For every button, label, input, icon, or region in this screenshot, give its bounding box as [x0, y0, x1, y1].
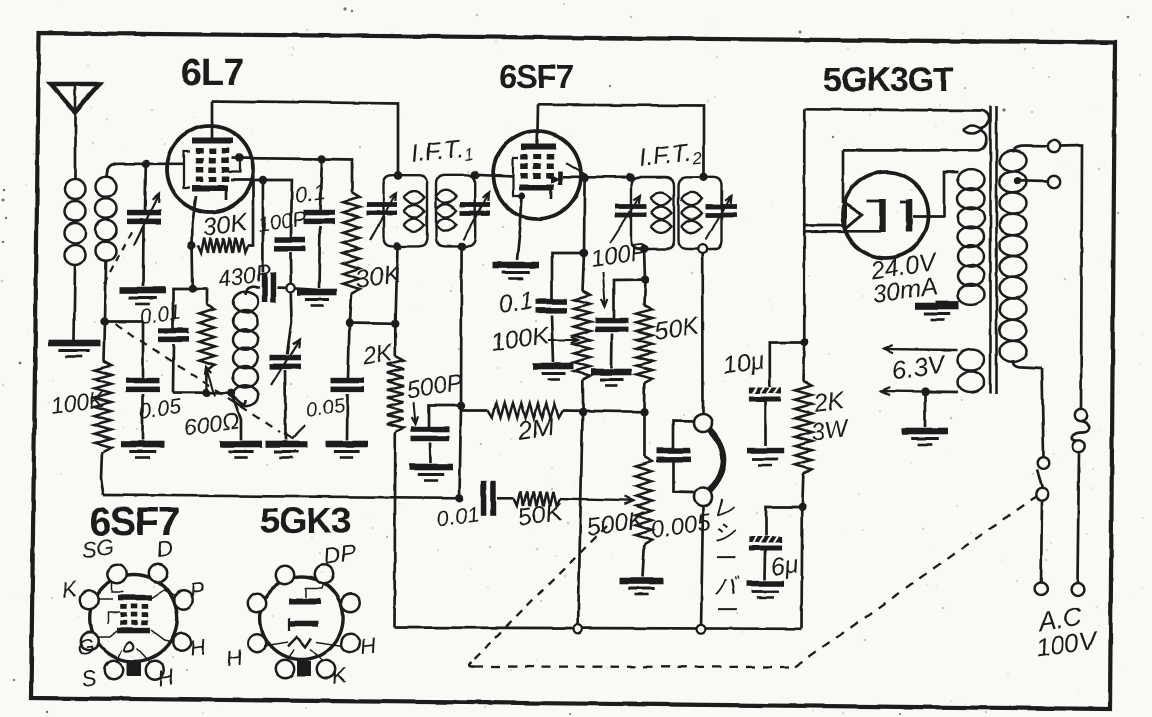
- wire primary bottom to switch: [1013, 360, 1042, 369]
- resistor 100K (diode load): [583, 253, 585, 291]
- svg-text:S: S: [80, 665, 98, 692]
- arrow osc varcap: [271, 339, 300, 385]
- wire 6L7 grid3 out: [232, 158, 322, 159]
- 6L7 grids: [196, 148, 204, 154]
- wire phones bottom down: [701, 506, 703, 629]
- svg-text:0.05: 0.05: [137, 393, 184, 424]
- IFT1 secondary coil: [436, 190, 457, 203]
- svg-text:H: H: [188, 634, 207, 661]
- ground 6u: [747, 581, 784, 587]
- antenna: [51, 84, 99, 112]
- svg-text:0.1: 0.1: [497, 286, 535, 319]
- arrow 6.3V bottom: [881, 390, 925, 393]
- wire audio bottom bus: [395, 628, 802, 629]
- ground 6.3V: [902, 428, 948, 435]
- wire 2K down to bus: [393, 432, 396, 628]
- wire 50K to volume arrow: [560, 499, 633, 501]
- capacitor 0.05 (screen): [348, 323, 350, 378]
- node volume top: [640, 408, 648, 416]
- arrow IFT1 primary trimmer: [370, 193, 396, 240]
- svg-text:5GK3: 5GK3: [260, 500, 350, 541]
- svg-text:H: H: [224, 644, 243, 671]
- ground 0.1 6SF7: [534, 363, 574, 370]
- wire tuning cap to ground: [142, 226, 145, 286]
- wire 30K right up: [248, 180, 253, 246]
- wire diode load down: [583, 178, 586, 253]
- 6SF7 base circle: [90, 575, 177, 662]
- wire 0.005 bottom: [674, 462, 695, 493]
- resistor 100K (RF): [95, 361, 112, 452]
- wire 100P down: [289, 252, 292, 284]
- IFT2 secondary loop: [679, 177, 722, 249]
- wire 100P#2 ground: [610, 334, 613, 368]
- fuse element: [1072, 421, 1090, 441]
- svg-text:ー: ー: [713, 545, 737, 571]
- capacitor 0.1 (6L7): [320, 159, 322, 210]
- node IFT2 primary top: [626, 173, 634, 181]
- transformer primary winding: [1000, 150, 1027, 171]
- arrow 100K label: [548, 339, 578, 341]
- 6SF7 cathode lead: [518, 192, 525, 199]
- resistor 50K (IF): [645, 280, 646, 305]
- resistor 30K (cathode) horizontal: [198, 238, 248, 253]
- IFT1 primary loop: [384, 175, 428, 246]
- wire 0.005 top: [674, 421, 696, 448]
- arrow tuning C1: [134, 194, 159, 245]
- IFT2 primary coil: [651, 192, 672, 205]
- wire tuning cap drop: [144, 164, 148, 210]
- svg-text:600Ω: 600Ω: [182, 407, 241, 441]
- ground tuning cap: [120, 287, 166, 294]
- AC terminal right: [1071, 583, 1084, 596]
- IFT2 secondary coil: [681, 192, 702, 205]
- wire phones top up: [701, 253, 704, 414]
- 6SF7 grid bracket: [513, 158, 519, 196]
- wire 0.1 ground: [552, 315, 554, 362]
- wire primary top: [1013, 146, 1047, 153]
- svg-text:P: P: [188, 577, 206, 604]
- ground 10u: [748, 448, 784, 454]
- IFT1 primary coil: [404, 191, 425, 204]
- wire AVC bus: [104, 495, 460, 498]
- capacitor 0.01 (osc grid): [158, 328, 189, 334]
- tube 6L7 envelope: [167, 126, 253, 212]
- wire 6SF7 diode out: [563, 175, 631, 178]
- node bus AVC circle: [574, 625, 583, 634]
- 5GK3 base circle: [260, 577, 343, 660]
- switch upper contact: [1038, 457, 1050, 469]
- svg-text:6μ: 6μ: [769, 550, 801, 582]
- node tuning junction: [142, 160, 150, 168]
- 6SF7 diode plate: [558, 171, 563, 185]
- svg-text:5GK3GT: 5GK3GT: [823, 61, 954, 99]
- wire 2K3W to bus: [800, 507, 803, 628]
- 5GK3GT filament triangle: [845, 204, 862, 229]
- svg-text:100K: 100K: [489, 321, 552, 357]
- svg-text:I.F.T.2: I.F.T.2: [638, 138, 704, 174]
- svg-text:500P: 500P: [405, 369, 464, 404]
- wire cathode rect top: [193, 288, 207, 291]
- antenna coil primary L1: [65, 179, 86, 199]
- node screen bus right: [391, 320, 399, 328]
- 5GK3 base pins: [276, 566, 294, 584]
- node IFT1 primary top: [394, 171, 402, 179]
- node 2M junction: [578, 408, 586, 416]
- node IFT1 secondary top: [471, 171, 479, 179]
- wire 100K to AVC bus: [101, 452, 104, 495]
- svg-text:H: H: [156, 664, 175, 691]
- wire tap to fuse line: [1061, 146, 1083, 410]
- node AVC-0.01: [455, 494, 463, 502]
- resistor 600ohm: [206, 289, 209, 304]
- resistor 2K (osc plate): [394, 324, 397, 356]
- wire screen out: [231, 179, 263, 182]
- svg-text:DP: DP: [322, 539, 358, 569]
- ground 0.05 osc: [121, 441, 165, 448]
- 5GK3 base key: [297, 661, 311, 676]
- wire osc varcap top: [287, 292, 292, 354]
- resistor 30K (screen feed) vertical: [343, 192, 360, 294]
- svg-text:G: G: [76, 633, 96, 660]
- capacitor 100P (IF): [595, 318, 628, 324]
- ground osc varcap: [265, 441, 307, 448]
- arrow IFT2 primary trimmer: [610, 196, 640, 243]
- wire filament winding top: [804, 109, 983, 110]
- wire IFT1 secondary bottom down: [460, 246, 463, 405]
- node 100P-50K: [641, 275, 649, 283]
- svg-text:K: K: [330, 662, 349, 689]
- wire 6SF7 plate top run: [538, 105, 704, 178]
- wire IFT2 primary bottom down: [645, 249, 646, 280]
- resistor 2K 3W: [804, 343, 805, 382]
- svg-text:50K: 50K: [653, 312, 702, 346]
- filament winding loop: [982, 111, 990, 129]
- wire 6.3V ground: [924, 392, 927, 427]
- fuse bottom circle: [1073, 440, 1085, 452]
- svg-text:30K: 30K: [201, 208, 250, 242]
- node IFT1 secondary bottom: [457, 242, 465, 250]
- 6SF7 internal grid diag: [566, 163, 585, 174]
- wire to plate bar bottom: [804, 230, 881, 233]
- ground 6SF7 cathode: [493, 262, 539, 269]
- node cathode bottom: [189, 285, 197, 293]
- wire 500P ground: [429, 443, 432, 463]
- svg-text:50K: 50K: [516, 498, 565, 532]
- wire 500K ground: [642, 545, 644, 577]
- svg-text:2K: 2K: [360, 339, 395, 370]
- node grid3 inner: [235, 154, 243, 162]
- 5GK3GT plate bar 2: [906, 199, 913, 232]
- IFT2 primary trimmer: [615, 204, 646, 209]
- wire B+ riser: [803, 109, 806, 343]
- fuse top circle: [1074, 409, 1086, 421]
- wire to 100P#2: [614, 280, 646, 318]
- svg-text:100P: 100P: [589, 238, 648, 273]
- svg-text:6L7: 6L7: [181, 52, 243, 94]
- wire junction to ground: [295, 289, 318, 291]
- transformer HV winding: [958, 169, 985, 190]
- 6SF7 base key: [127, 660, 141, 676]
- arrow IFT1 secondary trimmer: [463, 193, 489, 240]
- 5GK3GT plate bar 1: [879, 199, 886, 232]
- switch blade: [1037, 470, 1043, 488]
- winding tap: [1014, 177, 1022, 185]
- 6L7 cathode bar: [192, 186, 228, 192]
- ground HV winding: [915, 303, 959, 310]
- ground 100P IF: [592, 369, 632, 376]
- capacitor 430P: [262, 273, 268, 303]
- 6SF7 grids: [520, 154, 528, 160]
- capacitor 0.005: [657, 448, 691, 454]
- wire IFT1 primary bottom down: [396, 246, 398, 323]
- resistor 2M horizontal: [429, 406, 461, 429]
- oscillator coil L3: [232, 393, 247, 404]
- svg-text:K: K: [60, 576, 79, 603]
- capacitor 100P (osc): [275, 237, 306, 243]
- svg-text:10μ: 10μ: [721, 346, 766, 380]
- wire 6.3V top arrow: [884, 349, 958, 350]
- wire plate to HV winding: [913, 172, 958, 216]
- 6L7 plate lead: [211, 101, 214, 140]
- resistor 50K (audio) horizontal: [514, 491, 560, 505]
- 6L7 grid-3 hook: [229, 158, 240, 172]
- wire screen branch down: [262, 180, 265, 272]
- wire 6.3V bottom: [925, 390, 958, 393]
- wire 0.1 to ground: [319, 226, 320, 288]
- node cathode 30K: [188, 241, 196, 249]
- wire 50K down: [643, 383, 646, 412]
- headphone arc: [710, 430, 724, 491]
- antenna coil secondary L2: [96, 177, 117, 197]
- 6SF7 plate lead: [537, 105, 538, 146]
- svg-text:2K: 2K: [811, 386, 847, 418]
- svg-text:2M: 2M: [515, 411, 556, 446]
- wire screen to 100P: [263, 180, 292, 237]
- node IFT2 primary bottom: [640, 245, 648, 253]
- svg-text:バ: バ: [714, 573, 740, 599]
- wire 6L7 plate top run: [212, 101, 398, 175]
- 6L7 plate bar: [192, 138, 233, 144]
- capacitor 0.01 (coupling): [481, 481, 487, 516]
- node IFT2 secondary bottom: [698, 245, 707, 254]
- node IFT2 secondary top: [699, 173, 707, 181]
- 6SF7 cathode bar: [519, 185, 554, 191]
- wire secondary top to grid: [106, 164, 184, 178]
- wire cathode down: [191, 245, 195, 289]
- svg-text:I.F.T.1: I.F.T.1: [410, 134, 475, 170]
- capacitor 0.05 (osc): [142, 322, 145, 379]
- wire 10u ground: [764, 402, 767, 447]
- wire coil top to 430P: [256, 286, 260, 288]
- wire filament winding return: [843, 149, 978, 152]
- wire to 0.1 cap: [552, 253, 584, 299]
- AC terminal left: [1035, 583, 1048, 596]
- wire antenna to coil: [74, 108, 77, 178]
- wire filament upper leg: [842, 150, 845, 203]
- headphone bottom terminal: [694, 488, 712, 506]
- arrow 600ohm wiper: [207, 367, 216, 396]
- svg-text:3W: 3W: [809, 414, 852, 447]
- svg-text:0.05: 0.05: [305, 395, 347, 422]
- svg-text:SG: SG: [80, 534, 115, 563]
- node IFT1 primary bottom: [393, 242, 401, 250]
- node screen bus left: [345, 319, 353, 327]
- node plate-line 0.1: [318, 155, 326, 163]
- node screen: [259, 176, 267, 184]
- svg-text:シ: シ: [713, 520, 737, 546]
- node bus phones circle: [697, 625, 706, 634]
- IFT2 primary loop: [631, 177, 674, 249]
- 6SF7 base internals: [118, 595, 152, 601]
- ground osc coil: [240, 393, 243, 440]
- wire 100K to 2M line: [581, 380, 584, 412]
- variable capacitor tuning C1: [127, 210, 161, 216]
- ground 500P: [409, 464, 453, 471]
- dashed gang line to oscillator: [115, 324, 280, 432]
- wire IFT1 secondary to 6SF7 grid: [475, 175, 513, 177]
- IFT1 primary trimmer: [367, 202, 397, 207]
- svg-text:0.1: 0.1: [293, 179, 327, 208]
- wire 6u ground: [764, 551, 767, 581]
- svg-text:0.01: 0.01: [138, 300, 182, 328]
- dashed gang line left: [104, 229, 133, 284]
- arrow 100P label: [603, 272, 605, 306]
- svg-text:6.3V: 6.3V: [890, 348, 950, 386]
- node 0.1 branch: [580, 249, 588, 257]
- tube 5GK3GT envelope: [843, 172, 929, 258]
- wire fuse to AC terminal: [1078, 452, 1080, 583]
- capacitor 6u: [766, 507, 802, 536]
- wire to 100K: [104, 322, 105, 362]
- capacitor 0.1 (6SF7): [536, 299, 567, 305]
- wire 30K to node: [350, 294, 352, 323]
- tube 6SF7 envelope: [493, 131, 581, 219]
- dashed linkage volume-switch: [471, 526, 607, 662]
- wire screen bus: [350, 322, 396, 325]
- IFT1 secondary trimmer: [460, 202, 490, 207]
- ground antenna primary: [48, 340, 100, 347]
- IFT2 secondary trimmer: [706, 204, 737, 209]
- wire 430P right: [277, 286, 287, 289]
- switch lower contact: [1036, 488, 1048, 500]
- wire osc bottom bus: [173, 391, 232, 394]
- wire 0.05 to ground: [346, 394, 349, 440]
- heater winding 6.3V: [958, 350, 985, 371]
- node AVC left: [100, 317, 108, 325]
- 6SF7 base pins: [108, 565, 126, 583]
- wire osc varcap ground: [284, 370, 287, 440]
- svg-text:0.01: 0.01: [435, 501, 481, 532]
- wire secondary bottom: [105, 262, 106, 322]
- wire coil to ground: [74, 266, 75, 340]
- svg-text:100P: 100P: [256, 207, 308, 237]
- wire filament lower-left leg: [804, 224, 844, 227]
- node diode junction: [580, 173, 588, 181]
- wire switch to AC terminal: [1041, 500, 1042, 583]
- wire plate line to 30K: [322, 159, 352, 192]
- potentiometer 500K: [643, 412, 646, 456]
- 6L7 grid bracket: [184, 151, 190, 188]
- node osc junction circle: [286, 284, 295, 293]
- ground 0.05 screen: [326, 441, 368, 448]
- arrow IFT2 secondary trimmer: [706, 196, 731, 240]
- variable capacitor oscillator C2: [270, 355, 301, 361]
- terminal tap top: [1048, 140, 1060, 152]
- node 6u: [798, 503, 806, 511]
- terminal tap 90V: [1048, 176, 1060, 188]
- wire 0.01 to 50K: [497, 497, 514, 500]
- svg-text:ー: ー: [714, 597, 738, 623]
- svg-text:H: H: [358, 632, 377, 659]
- ground 0.1/osc: [297, 289, 337, 296]
- wire HV winding bottom: [937, 302, 959, 303]
- wire 0.05 osc ground: [141, 394, 144, 440]
- 6L7 cathode lead: [192, 196, 196, 245]
- node B+ 10u: [800, 338, 808, 346]
- svg-text:6SF7: 6SF7: [499, 58, 574, 95]
- 6SF7 plate bar: [521, 144, 556, 150]
- ground 500K: [620, 578, 664, 585]
- transformer core: [989, 106, 992, 394]
- wire 2K3W down: [802, 474, 803, 507]
- svg-text:レ: レ: [712, 495, 735, 521]
- IFT1 secondary loop: [436, 175, 475, 247]
- headphone top terminal: [694, 414, 712, 432]
- 5GK3 base internals: [289, 599, 321, 605]
- wire AVC vertical down: [578, 412, 583, 629]
- wire 0.01 down: [172, 344, 175, 393]
